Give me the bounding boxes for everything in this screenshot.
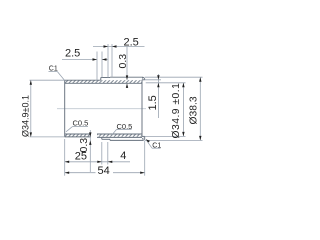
svg-text:0.3: 0.3 [78,138,90,153]
svg-text:Ø34.9±0.1: Ø34.9±0.1 [20,95,30,137]
svg-text:4: 4 [120,150,126,162]
svg-text:Ø34.9 ±0.1: Ø34.9 ±0.1 [171,83,182,139]
svg-text:2.5: 2.5 [124,36,139,48]
svg-text:0.3: 0.3 [117,54,129,69]
svg-text:C1: C1 [152,143,161,150]
svg-text:Ø38.3: Ø38.3 [188,96,199,124]
svg-text:C1: C1 [49,66,58,73]
svg-text:1.5: 1.5 [147,95,159,110]
svg-text:54: 54 [98,165,110,177]
svg-text:2.5: 2.5 [65,48,80,60]
svg-text:C0.5: C0.5 [73,119,89,128]
svg-text:C0.5: C0.5 [117,122,133,131]
